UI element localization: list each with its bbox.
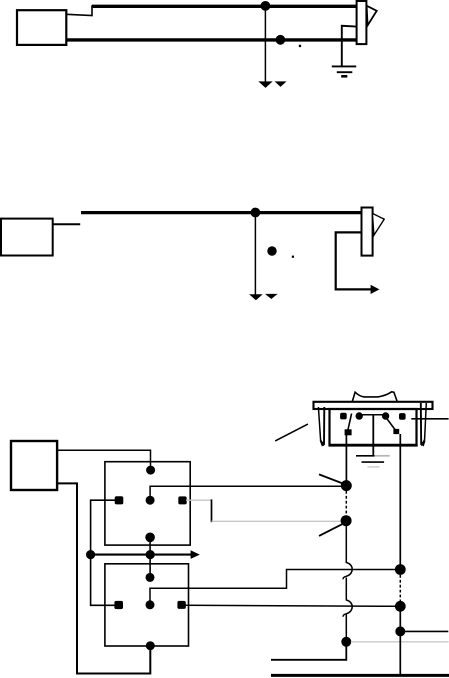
relay K1 pin top — [146, 466, 155, 475]
wire step from box to top wire — [66, 5, 92, 15]
solder pad 2 — [393, 429, 399, 434]
hop 1 arc — [343, 563, 352, 580]
relay K2 pin top — [146, 573, 155, 582]
contact arm 1 — [348, 414, 352, 431]
bottom bus thick — [271, 674, 449, 677]
wire terminal 4 stub right — [411, 418, 448, 420]
relay K2 pin center — [146, 600, 155, 609]
wire box bottom loop to relay K2 bottom — [57, 483, 150, 673]
arrow down 2 — [275, 81, 287, 87]
ground symbol G2 — [356, 455, 375, 457]
wire K1 right pin gray link — [186, 499, 212, 501]
wire between hops — [345, 578, 347, 601]
relay K1 pin center — [146, 496, 155, 505]
terminal 1 — [340, 413, 347, 420]
wire main (hot) — [81, 211, 362, 214]
left mounting wing — [318, 407, 323, 446]
relay K2 pin right — [177, 601, 185, 609]
dotted link — [345, 491, 347, 516]
relay K1 pin left — [115, 496, 124, 504]
relay K2 body — [105, 564, 189, 646]
terminal 4 — [399, 413, 406, 420]
relay K2 pin left — [114, 601, 123, 609]
node K dot — [395, 626, 405, 636]
box B3 — [11, 441, 57, 490]
arrow down 1 — [258, 81, 272, 88]
wire box to relay K1 top — [57, 450, 150, 470]
link terminal 2-3 — [359, 414, 385, 416]
solder pad 1 — [345, 429, 352, 435]
period mark — [299, 45, 301, 47]
node E dot center crossing — [146, 550, 155, 559]
node H dot — [341, 637, 351, 647]
wire K2 center pin riser to right column — [150, 570, 400, 605]
wire down to node H — [345, 615, 347, 642]
wire K1 bottom pin to K2 top pin — [149, 538, 151, 577]
relay K1 body — [105, 462, 190, 545]
node J dot — [395, 601, 406, 612]
lever 1 — [319, 474, 344, 484]
terminal 2 — [356, 412, 363, 419]
wire K1 center pin riser to switch node — [150, 486, 346, 500]
wire pad2 down — [399, 434, 401, 565]
arrow down 3 — [249, 294, 263, 300]
node C junction dot — [251, 208, 261, 218]
arrow down 4 — [265, 294, 278, 299]
right wing arrow — [421, 440, 426, 446]
wire jack sleeve to ground — [342, 26, 357, 67]
wire bottom (return) — [66, 38, 356, 41]
dotted link — [399, 575, 401, 602]
node F dot — [341, 480, 352, 491]
relay K1 pin right — [178, 496, 186, 504]
wire node J down — [399, 606, 401, 675]
wire node K stub right — [400, 630, 448, 632]
ground lead from terminals — [372, 415, 374, 456]
wire down to hop 1 — [345, 521, 347, 563]
wire bracket left (K1 left pin to K2 left pin) — [91, 500, 119, 605]
terminal 3 — [382, 412, 389, 419]
jack J2 tip triangle — [372, 213, 384, 235]
wire K2 right pin to right column — [185, 605, 400, 606]
node I dot — [395, 564, 406, 575]
switch body bottom thick edge — [329, 444, 418, 447]
leader line callout — [275, 424, 308, 441]
wire gray link to switch node 2 — [212, 520, 343, 522]
wire jog vertical — [211, 499, 213, 522]
gray stub right from node H — [351, 641, 449, 643]
jack J1 body — [357, 1, 367, 44]
wire node H down-left — [271, 642, 346, 660]
relay K1 pin bottom — [145, 533, 155, 543]
jack J2 body — [362, 208, 373, 256]
wire drop from node C — [254, 213, 256, 295]
wire top (hot) — [92, 5, 357, 8]
wire jack sleeve to arrow — [336, 232, 372, 289]
contact arm 2 — [386, 418, 396, 431]
arrow line between relays — [91, 554, 191, 556]
box J1 driver — [17, 10, 66, 45]
switch bezel — [314, 402, 433, 409]
arrowhead right — [191, 550, 200, 559]
box J2 driver — [1, 219, 53, 256]
rocker actuator — [352, 392, 397, 402]
jack J1 tip triangle — [367, 6, 377, 26]
node D dot left end of arrow line — [86, 550, 95, 559]
node A junction dot on top wire — [261, 1, 271, 11]
arrow right — [371, 285, 380, 294]
relay K2 pin bottom — [146, 641, 155, 650]
period mark — [292, 256, 294, 258]
hop 2 arc — [343, 600, 352, 617]
right mounting wing — [420, 403, 422, 445]
ground symbol G1 — [332, 65, 356, 67]
switch body — [330, 409, 417, 445]
node B junction dot on bottom wire — [276, 35, 286, 45]
node G dot — [341, 515, 352, 526]
wire pad1 down — [345, 435, 347, 481]
lever 2 — [319, 523, 344, 536]
wire drop from node A — [264, 6, 266, 82]
left wing arrow — [320, 440, 325, 446]
wire stub from box — [53, 223, 80, 225]
floating dot — [267, 246, 276, 255]
